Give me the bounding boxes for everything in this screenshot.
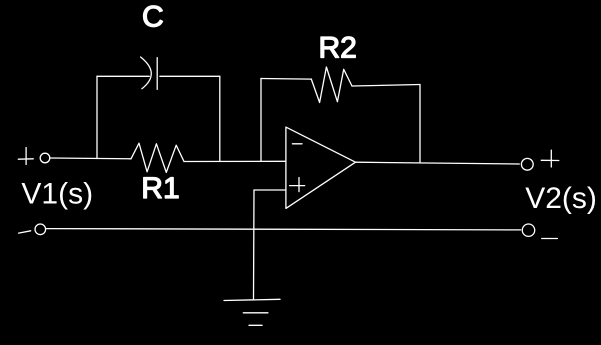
svg-text:C: C	[142, 0, 164, 33]
svg-text:V1(s): V1(s)	[21, 178, 93, 211]
wire capacitor loop left vertical	[96, 76, 98, 158]
wire op-amp noninverting input	[254, 189, 286, 191]
node V1+ terminal circle	[40, 153, 50, 163]
ground middle bar	[243, 312, 268, 314]
wire R2 right vertical to output	[419, 85, 421, 163]
op-amp U1 triangle	[286, 127, 356, 208]
capacitor C straight plate	[156, 58, 158, 90]
node V2+ terminal circle	[521, 158, 533, 170]
wire op-amp output to V2 terminal	[356, 162, 520, 164]
node V1- terminal circle	[35, 224, 46, 235]
wire R2 loop left vertical	[260, 79, 262, 162]
svg-text:V2(s): V2(s)	[525, 182, 597, 215]
terminal minus sign V1 -	[19, 231, 31, 233]
terminal plus sign V1 +	[18, 148, 33, 165]
op-amp U1 minus input mark	[292, 143, 302, 145]
svg-text:R1: R1	[141, 172, 179, 205]
wire input to R1	[50, 157, 131, 160]
resistor R2	[311, 67, 352, 103]
svg-text:R2: R2	[319, 32, 357, 65]
ground bottom bar	[249, 324, 262, 326]
resistor R1	[131, 143, 184, 172]
wire R1 to op-amp inverting input	[184, 160, 286, 162]
op-amp U1 plus input mark	[290, 178, 305, 192]
node V2- terminal circle	[522, 224, 534, 236]
terminal minus sign V2 -	[542, 238, 558, 240]
ground top bar	[224, 299, 280, 300]
wire capacitor top left	[97, 75, 149, 77]
wire capacitor top right	[160, 75, 220, 77]
wire ground stem	[253, 190, 256, 299]
wire capacitor loop right vertical	[219, 76, 221, 161]
wire R2 top right	[352, 85, 420, 87]
terminal plus sign V2 +	[541, 150, 559, 167]
wire bottom rail	[46, 229, 521, 230]
wire R2 top left	[261, 78, 311, 81]
capacitor C curved plate	[141, 57, 152, 89]
